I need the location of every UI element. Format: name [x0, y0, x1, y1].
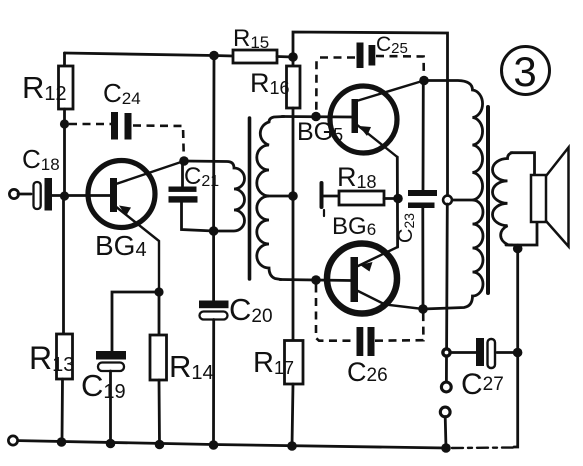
wire R17 bottom to rail: [292, 384, 293, 446]
wire C19 bottom to rail: [109, 371, 112, 444]
battery terminal plus: [441, 382, 451, 392]
wire C18 to BG4 base: [52, 194, 110, 197]
wire dashed C25 right: [376, 56, 424, 76]
node rail R13: [57, 437, 67, 447]
node rail battery: [441, 443, 451, 453]
node rail C19: [106, 439, 116, 449]
node C21/transformer bottom junction: [209, 226, 219, 236]
wire BG5 base: [282, 115, 352, 118]
transistor BG4: [88, 161, 184, 293]
wire R12 top lead: [63, 53, 66, 66]
wire vertical x213 from top rail to C20: [212, 56, 215, 301]
transformer T1 secondary: [257, 117, 284, 280]
transistor BG5: [330, 81, 424, 158]
capacitor C23: [408, 81, 437, 310]
wire top-left rail from R12 top to R15 left: [65, 53, 234, 56]
ground rail bottom: [13, 441, 446, 449]
node R18 right junction: [393, 194, 403, 204]
transformer T2 core: [486, 107, 490, 293]
ground rail left terminal: [8, 436, 17, 445]
node center tap junction: [288, 191, 298, 201]
node C27 left junction: [443, 349, 450, 356]
node rail R14: [155, 440, 165, 450]
wire left vertical R12-bottom to base node: [63, 124, 66, 196]
resistor R18: [322, 183, 399, 216]
wire input to C18: [18, 193, 31, 196]
node rail R17: [287, 441, 297, 451]
svg-text:3: 3: [513, 48, 536, 95]
transistor BG6: [327, 244, 423, 314]
wire emitter node to R14: [158, 292, 161, 335]
node BG4 base junction: [60, 191, 69, 200]
wire dashed C24 left: [69, 123, 111, 126]
capacitor C25: [357, 43, 376, 69]
capacitor C21: [169, 161, 214, 231]
capacitor C19: [96, 351, 126, 371]
node BG6 collector junction: [418, 304, 428, 314]
wire dashed C24 right: [133, 126, 184, 159]
node BG4 collector junction: [179, 156, 189, 166]
resistor R15: [233, 50, 293, 63]
wire T1 secondary tap to bias line: [267, 195, 293, 198]
wire R13 bottom lead: [61, 379, 64, 441]
wire base node down to R13: [62, 196, 65, 334]
wire R12 bottom lead: [63, 109, 66, 124]
transformer T1 core: [248, 118, 252, 279]
node R12 bottom junction: [60, 119, 69, 128]
transformer T2 primary: [423, 81, 483, 310]
capacitor C18: [34, 178, 53, 211]
battery terminal minus: [440, 407, 450, 417]
wire feed line below tap: [445, 204, 448, 348]
wire junction to battery terminal: [445, 357, 448, 383]
node speaker return top junction: [513, 244, 523, 254]
resistor R16: [287, 66, 301, 108]
node BG5 collector junction: [419, 76, 429, 86]
node BG6 base junction: [311, 275, 321, 285]
node x213 top junction: [209, 51, 219, 61]
marker circled 3: [502, 47, 550, 96]
resistor R12: [59, 66, 74, 109]
wire T2 center tap: [448, 199, 473, 202]
tap terminal ring: [443, 196, 452, 205]
wire R16 top lead: [292, 57, 295, 66]
capacitor C26: [357, 327, 375, 356]
capacitor C27: [451, 338, 518, 368]
node C27 right junction: [513, 348, 523, 358]
wire battery terminal to rail: [444, 417, 448, 449]
input terminal: [9, 189, 18, 198]
resistor R17: [285, 341, 304, 385]
wire right vertical speaker return: [514, 249, 518, 448]
wire dashed C26 left: [316, 285, 355, 341]
wire dashed C25 left: [316, 58, 355, 113]
wire BG6 base: [280, 280, 351, 281]
wire T2 secondary bottom to speaker: [506, 222, 537, 245]
wire emitter node left to C19: [112, 292, 159, 351]
wire T2 secondary top to speaker: [511, 153, 535, 175]
wire upper rail to output transformer feed: [293, 32, 448, 196]
resistor R14: [150, 335, 167, 380]
speaker: [531, 148, 569, 247]
wire C20 bottom to rail: [212, 320, 215, 446]
node rail C20: [209, 440, 219, 450]
node BG4 emitter junction: [154, 287, 163, 296]
wire emitter bus BG5 to BG6: [396, 157, 399, 247]
node BG5 base junction: [311, 112, 321, 122]
capacitor C20: [199, 301, 229, 320]
resistor R13: [57, 334, 73, 379]
wire ground rail dashed right section: [452, 446, 515, 449]
wire dashed C26 right: [375, 313, 423, 341]
wire R16 bottom to center tap to R17: [292, 108, 295, 340]
capacitor C24: [111, 112, 132, 140]
node R15 right junction: [288, 52, 298, 62]
transformer T1 primary: [184, 161, 245, 231]
transformer T2 secondary: [493, 153, 513, 245]
wire R14 bottom to rail: [158, 380, 161, 445]
